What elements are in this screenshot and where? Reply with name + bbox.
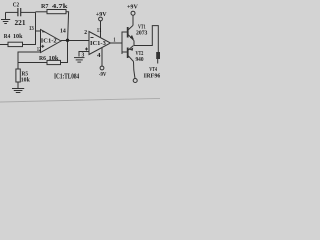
svg-text:IC1:TL084: IC1:TL084 [54,72,80,80]
wire: pin 12 to feedback net [18,52,41,69]
minus sign pin13 [42,31,45,33]
svg-text:10k: 10k [13,33,23,40]
svg-text:IC1-3: IC1-3 [90,40,106,47]
wire: R7 right elbow down to output net [66,12,69,41]
terminal (VT2 collector out) [133,79,137,83]
wire: pin 4 to -9V [101,48,103,66]
wire: feedback net to R6 left [18,62,47,64]
transistor Q VT2 (PNP) [127,46,135,79]
cropped component at right edge [156,52,161,59]
resistor R5 (vertical) [16,69,20,82]
wire: R4 to inverting node [23,44,37,46]
svg-text:R7: R7 [41,3,49,10]
wire: pin 11 to +9V [100,21,102,38]
svg-text:13: 13 [29,26,34,32]
background paper [0,0,160,110]
svg-text:10k: 10k [21,78,31,84]
wire: VT2 base stub [122,51,127,53]
wire: VT1 base stub [122,31,127,33]
op-amp IC1-2 [41,30,62,53]
svg-text:VT1: VT1 [138,24,146,30]
svg-text:C2: C2 [13,1,20,8]
op-amp IC1-3 [89,32,111,55]
wire: input to R4 from left edge [0,44,8,46]
wire: emitter node to right edge loop [134,26,158,52]
wire: pin 3 to ground [79,52,89,57]
wire: IC1-2 output to IC1-3 input [61,40,89,42]
svg-text:2073: 2073 [136,31,147,37]
terminal +9V (IC supply) [99,17,103,21]
wire: base bus vertical [121,32,123,55]
plus sign pin3 [85,48,88,51]
svg-text:+9V: +9V [127,4,138,11]
wire: node to R7 left [36,11,48,13]
faint bottom rail artifact [0,98,160,102]
resistor R7 [47,10,66,14]
svg-text:VT4: VT4 [149,67,157,73]
wire: IC1-3 output pin 1 to bases [111,42,123,44]
svg-text:-9V: -9V [99,71,107,78]
minus sign pin2 [91,37,94,39]
junction node (feedback/output) [66,39,69,42]
svg-text:940: 940 [136,57,144,63]
terminal +9V (VT1 collector) [131,11,135,15]
wire: pin 13 stub [36,30,41,32]
ground (below R5) [12,89,24,93]
svg-text:IC1-2: IC1-2 [41,38,57,45]
capacitor C2 (plates) [18,8,21,16]
terminal -9V (IC supply) [100,66,104,70]
transistor Q VT1 (NPN) [127,15,134,45]
resistor R4 [8,42,23,46]
svg-text:R4: R4 [4,33,11,40]
svg-text:221: 221 [15,18,26,27]
wire: node vertical (C2/R7/R4/pin13 net) [35,12,37,45]
svg-text:+9V: +9V [96,11,107,18]
resistor R6 [47,60,61,64]
ground (pin 3) [74,58,85,63]
svg-text:3: 3 [82,53,85,59]
svg-text:2: 2 [84,30,87,36]
ground (top-left, C2 return) [1,12,10,23]
svg-text:4: 4 [97,53,101,59]
svg-text:IRF9640: IRF9640 [144,73,160,79]
wire: ground to C2 left plate [6,11,18,13]
svg-text:4.7k: 4.7k [52,3,68,10]
svg-text:1: 1 [113,37,115,43]
wire: stub below cropped component [157,59,159,64]
svg-text:R6: R6 [39,55,47,62]
svg-text:10k: 10k [49,55,59,62]
svg-text:14: 14 [60,28,66,34]
svg-text:12: 12 [37,47,41,53]
svg-text:11: 11 [97,28,102,34]
plus sign pin12 [41,45,44,48]
wire: R6 right up to output node [61,41,68,63]
wire: R5 bottom to ground [17,82,19,88]
wire: C2 right plate to node [21,11,36,13]
